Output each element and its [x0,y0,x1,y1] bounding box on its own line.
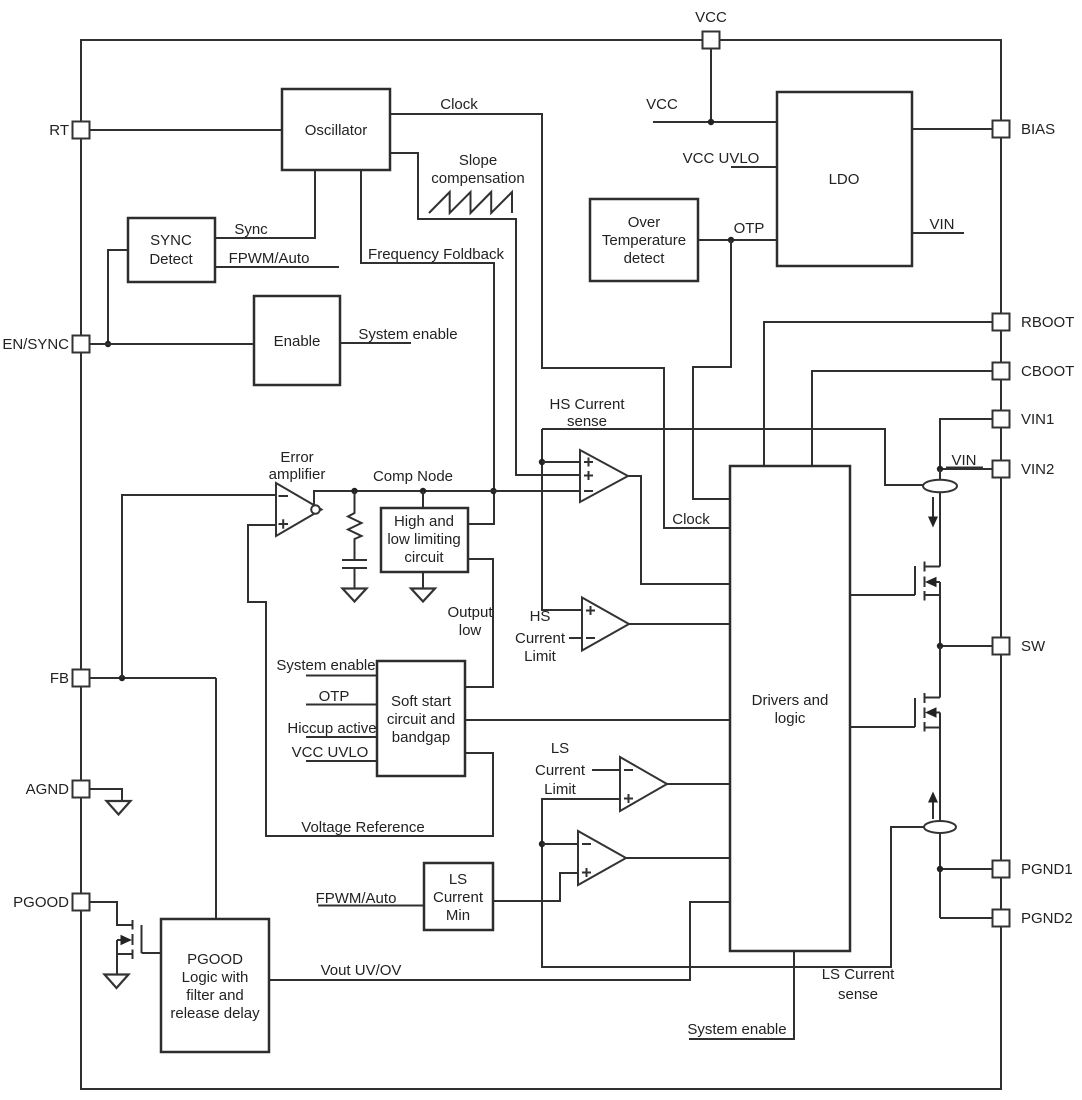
wire SW rail to LS FET drain [939,646,941,698]
pin RT [49,122,89,140]
svg-text:Enable: Enable [274,333,321,350]
svg-text:BIAS: BIAS [1021,121,1055,138]
svg-text:OTP: OTP [319,688,350,705]
svg-text:Frequency Foldback: Frequency Foldback [368,246,504,263]
svg-text:Limit: Limit [544,781,577,798]
wire SYNC Detect input from EN/SYNC [108,250,128,344]
wire LS sense comparator output to Drivers and logic [626,857,730,859]
wire VCC UVLO input to soft start [306,760,377,762]
pin AGND [26,781,90,799]
wire Hiccup active input to soft start [306,736,377,738]
junction EN/SYNC node [105,341,111,347]
wire FB down to PGOOD logic [215,678,217,919]
comparator LS current limit [620,757,667,811]
ground AGND [107,801,131,815]
svg-text:FPWM/Auto: FPWM/Auto [229,250,310,267]
svg-text:VCC UVLO: VCC UVLO [683,150,760,167]
svg-text:CBOOT: CBOOT [1021,363,1074,380]
wire PGND1 [940,868,992,870]
wire Sync from Oscillator to SYNC Detect [215,170,315,238]
svg-text:Drivers and: Drivers and [752,692,829,709]
junction PGND node [937,866,943,872]
svg-text:HS Current: HS Current [549,396,625,413]
wire Slope compensation from Oscillator to HS sense comparator [390,153,580,475]
pin FB [50,670,90,688]
wire VCC feed to LDO [653,121,777,123]
wire Frequency Foldback from Oscillator to limiting circuit [361,170,494,524]
wire LS FET source rail to PGND [939,713,941,919]
svg-text:Oscillator: Oscillator [305,122,368,139]
block High and low limiting circuit [381,508,468,572]
svg-text:Current: Current [433,889,484,906]
arrow LS current direction (up) [928,792,938,820]
svg-text:LS Current: LS Current [822,966,895,983]
wire AGND pin to ground [90,789,122,801]
svg-text:Current: Current [535,762,586,779]
wire System enable input to soft start [306,675,377,677]
capacitor comp network [342,560,367,568]
comparator HS current limit [582,598,629,651]
svg-text:compensation: compensation [431,170,524,187]
svg-text:VIN: VIN [929,216,954,233]
transistor high-side NMOS [850,562,940,601]
wire HS current sense vertical net [542,429,582,610]
svg-text:low: low [459,622,482,639]
wire LS current sense net to LS limit plus input [542,799,924,967]
resistor comp network [348,491,362,560]
wire FPWM/Auto stub from SYNC Detect [215,266,339,268]
svg-text:Hiccup active: Hiccup active [287,720,376,737]
wire FB pin to corner [90,677,216,679]
svg-text:Sync: Sync [234,221,268,238]
svg-text:AGND: AGND [26,781,70,798]
svg-text:Temperature: Temperature [602,232,686,249]
current sense element LS (ellipse) [924,821,956,833]
svg-text:Output: Output [447,604,493,621]
pin RBOOT [993,314,1075,332]
svg-text:System enable: System enable [276,657,375,674]
svg-text:VIN1: VIN1 [1021,411,1054,428]
wire OTP input to soft start [306,704,377,706]
wire RT to Oscillator [90,129,282,131]
svg-text:VIN: VIN [951,452,976,469]
wire LDO to BIAS pin [912,128,992,130]
pin EN/SYNC [2,336,89,354]
transistor low-side NMOS [850,693,940,732]
svg-text:HS: HS [530,608,551,625]
underline VIN label [946,467,983,469]
svg-text:System enable: System enable [358,326,457,343]
wire PGND2 [940,917,992,919]
junction VIN node [937,466,943,472]
svg-text:Soft start: Soft start [391,693,452,710]
junction OTP node [728,237,734,243]
current sense element HS (ellipse) [923,480,957,493]
svg-text:circuit: circuit [404,549,444,566]
svg-text:filter and: filter and [186,987,244,1004]
wire Output low from limiting circuit to soft start [465,559,493,687]
svg-text:PGND2: PGND2 [1021,910,1073,927]
svg-text:detect: detect [624,250,666,267]
pin VIN2 [993,461,1055,479]
svg-text:EN/SYNC: EN/SYNC [2,336,69,353]
svg-text:Logic with: Logic with [182,969,249,986]
junction HS sense node [539,459,545,465]
wire Clock from Oscillator to Drivers and logic [390,114,730,528]
junction comp node at resistor [351,488,357,494]
comparator LS current sense [578,831,626,885]
svg-text:Comp Node: Comp Node [373,468,453,485]
wire HS limit comparator output to Drivers and logic [629,623,730,625]
svg-text:Detect: Detect [149,251,193,268]
svg-text:High and: High and [394,513,454,530]
wire FB up to error amplifier inverting input [122,495,276,678]
svg-text:Error: Error [280,449,313,466]
svg-text:Limit: Limit [524,648,557,665]
pin VIN1 [993,411,1055,429]
transistor PGOOD pull-down FET [90,902,161,974]
junction SW node [937,643,943,649]
pin PGND1 [993,861,1073,879]
block SYNC Detect [128,218,215,282]
arrow HS current direction (down) [928,497,938,528]
pin CBOOT [993,363,1075,381]
svg-text:Clock: Clock [440,96,478,113]
svg-text:RT: RT [49,122,69,139]
svg-text:SYNC: SYNC [150,232,192,249]
junction FB node [119,675,125,681]
junction LS sense node [539,841,545,847]
wire System enable stub from Enable [340,342,411,344]
pin PGND2 [993,910,1073,928]
block Enable [254,296,340,385]
wire LS limit comparator output to Drivers and logic [667,783,730,785]
block Soft start circuit and bandgap [377,661,465,776]
wire CBOOT to Drivers and logic [812,371,992,466]
svg-text:OTP: OTP [734,220,765,237]
junction comp node at limiting circuit [420,488,426,494]
junction VCC node [708,119,714,125]
svg-text:LS: LS [449,871,467,888]
wire System enable bottom into Drivers and logic [689,951,794,1039]
wire Vout UV/OV from PGOOD logic to Drivers and logic [269,902,730,980]
wire HS sense comparator output to Drivers and logic [628,476,730,584]
wire VIN2 pin [940,468,992,470]
wire comp node into limiting circuit top [422,491,424,508]
svg-text:LS: LS [551,740,569,757]
svg-text:sense: sense [838,986,878,1003]
wire VIN rail through HS FET [939,469,941,646]
slope compensation sawtooth waveform [429,192,512,213]
wire VIN1 pin [940,419,992,469]
svg-text:Slope: Slope [459,152,497,169]
svg-text:FPWM/Auto: FPWM/Auto [316,890,397,907]
svg-text:low limiting: low limiting [387,531,460,548]
svg-text:VCC: VCC [695,9,727,26]
wire OTP from Over Temperature detect to LDO [698,239,777,241]
wire LS sense node to comparator minus input [542,843,578,845]
pin VCC [695,9,727,49]
wire soft start to Drivers and logic [465,719,730,721]
svg-text:Current: Current [515,630,566,647]
svg-text:SW: SW [1021,638,1046,655]
pin SW [993,638,1047,656]
svg-text:Clock: Clock [672,511,710,528]
wire SW node to pin [940,645,992,647]
comparator HS current sense [580,450,628,502]
block Oscillator [282,89,390,170]
svg-text:amplifier: amplifier [269,466,326,483]
svg-text:PGOOD: PGOOD [187,951,243,968]
svg-text:System enable: System enable [687,1021,786,1038]
svg-text:Voltage Reference: Voltage Reference [301,819,424,836]
ground PGOOD FET source [105,975,129,989]
wire HS limit minus stub [569,637,582,639]
ground limiting circuit [422,572,424,588]
wire HS current sense to sense element [542,429,923,485]
svg-text:VCC UVLO: VCC UVLO [292,744,369,761]
op-amp error amplifier [276,483,322,536]
svg-text:circuit and: circuit and [387,711,455,728]
svg-text:LDO: LDO [829,171,860,188]
wire VIN stub from LDO [912,232,964,234]
svg-text:Vout UV/OV: Vout UV/OV [321,962,402,979]
svg-text:VIN2: VIN2 [1021,461,1054,478]
wire VCC pin drop [710,49,712,122]
pin PGOOD [13,894,89,912]
junction comp node / frequency foldback [490,488,496,494]
wire LS Current Min to LS sense comparator [493,873,578,901]
svg-text:PGND1: PGND1 [1021,861,1073,878]
wire FPWM/Auto to LS Current Min [318,905,424,907]
wire OTP down to Drivers and logic [693,240,731,499]
block LDO [777,92,912,266]
svg-text:release delay: release delay [170,1005,260,1022]
svg-text:sense: sense [567,413,607,430]
wire EN/SYNC pin to Enable [90,343,254,345]
block Drivers and logic [730,466,850,951]
pin BIAS [993,121,1056,139]
block Over Temperature detect [590,199,698,281]
svg-text:PGOOD: PGOOD [13,894,69,911]
wire VCC UVLO stub to LDO [731,166,777,168]
svg-text:Over: Over [628,214,661,231]
wire RBOOT to Drivers and logic [764,322,992,466]
wire HS sense to comparator plus input [542,461,580,463]
svg-text:VCC: VCC [646,96,678,113]
wire LS limit minus stub [592,769,620,771]
svg-text:logic: logic [775,710,806,727]
block PGOOD Logic with filter and release delay [161,919,269,1052]
svg-text:Min: Min [446,907,470,924]
wire Comp Node from error amplifier output [314,491,580,505]
ground comp capacitor [343,589,367,602]
svg-text:RBOOT: RBOOT [1021,314,1074,331]
wire Voltage Reference loop from soft start to error amplifier [248,525,493,836]
block LS Current Min [424,863,493,930]
svg-text:FB: FB [50,670,69,687]
svg-text:bandgap: bandgap [392,729,450,746]
